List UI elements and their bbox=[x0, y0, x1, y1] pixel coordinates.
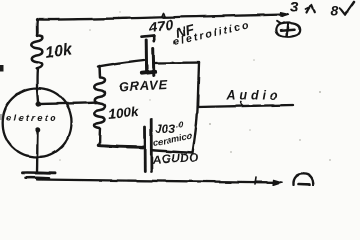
capacitor C1 470NF top tick bbox=[142, 36, 155, 37]
wire R2 bottom down bbox=[98, 128, 101, 146]
node mic bottom terminal dot bbox=[35, 127, 40, 132]
scan mark left edge upper bbox=[0, 65, 4, 72]
label audio small tick under d bbox=[240, 102, 242, 107]
capacitor C2 103 ceramic right plate bbox=[150, 119, 153, 171]
ground GND bar1 bbox=[22, 171, 55, 174]
ground GND bar2 bbox=[26, 176, 50, 179]
terminal (-) circle bbox=[293, 174, 313, 186]
wire box top edge right bbox=[155, 61, 199, 64]
svg-text:.0: .0 bbox=[177, 121, 184, 130]
capacitor C1 470NF foot bar bbox=[142, 72, 155, 73]
value 8V checkmark bbox=[340, 2, 355, 15]
wire mic bottom lead to ground bbox=[36, 132, 39, 173]
wire mic output to R2 bbox=[38, 103, 96, 104]
resistor R1 10K coil bbox=[31, 35, 42, 68]
scan mark left edge lower bbox=[0, 114, 2, 120]
wire box right edge bbox=[193, 63, 199, 153]
svg-text:GRAVE: GRAVE bbox=[118, 77, 168, 95]
terminal (+) circle bbox=[276, 22, 300, 36]
paper background bbox=[0, 0, 360, 186]
capacitor C1 470NF right plate bbox=[152, 48, 156, 76]
terminal (+) top-left pen tail bbox=[277, 21, 281, 23]
wire left drop from rail to R1 bbox=[36, 19, 39, 36]
terminal (-) minus sign bbox=[299, 183, 310, 186]
wire top rail (+) bbox=[37, 15, 285, 20]
terminal (+) plus sign vertical bbox=[287, 24, 288, 35]
svg-text:Audio: Audio bbox=[226, 89, 278, 103]
resistor R2 100K coil bbox=[94, 66, 105, 128]
wire mic internal top lead bbox=[37, 88, 38, 102]
svg-text:8: 8 bbox=[331, 3, 339, 19]
capacitor C1 470NF top tick drop bbox=[152, 36, 155, 41]
value A (a) glyph bbox=[307, 5, 315, 12]
wire top rail small kink bbox=[163, 14, 166, 17]
capacitor C2 103 ceramic left plate bbox=[143, 127, 146, 171]
wire thick to ceramic cap left plate bbox=[99, 145, 144, 147]
wire R1 to mic top bbox=[36, 69, 39, 89]
terminal (+) plus sign horizontal bbox=[281, 29, 295, 30]
svg-text:3: 3 bbox=[290, 0, 299, 16]
capacitor C1 470NF left plate bbox=[145, 41, 148, 72]
wire box top edge left bbox=[98, 60, 144, 67]
node bottom rail end arrow bbox=[273, 180, 282, 185]
wire audio out bbox=[198, 105, 293, 107]
wire cap C2 to right edge bbox=[153, 150, 193, 153]
wire bottom rail (-) bbox=[37, 180, 278, 183]
paper speckles bbox=[59, 11, 331, 161]
node top rail end arrow bbox=[281, 13, 289, 17]
electret mic MIC1 circle bbox=[3, 88, 72, 157]
svg-text:470: 470 bbox=[147, 17, 173, 36]
node mic top terminal dot bbox=[36, 101, 41, 106]
wire bottom rail small tick bbox=[256, 178, 257, 185]
